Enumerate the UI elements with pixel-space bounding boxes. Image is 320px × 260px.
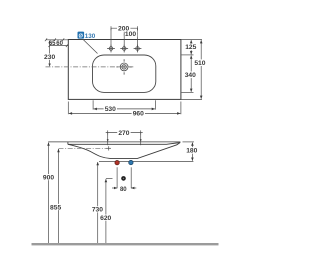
svg-text:900: 900 [43, 174, 54, 181]
svg-text:125: 125 [185, 44, 196, 51]
svg-text:65: 65 [49, 41, 56, 47]
svg-text:180: 180 [186, 148, 197, 155]
svg-text:80: 80 [120, 187, 127, 193]
svg-text:230: 230 [44, 54, 55, 61]
svg-text:130: 130 [85, 33, 96, 40]
svg-text:270: 270 [118, 130, 129, 137]
svg-text:730: 730 [92, 207, 103, 214]
svg-text:340: 340 [185, 72, 196, 79]
svg-text:100: 100 [125, 31, 136, 38]
svg-text:530: 530 [105, 106, 116, 113]
svg-text:960: 960 [133, 111, 144, 118]
svg-text:510: 510 [194, 60, 205, 67]
svg-text:Ø: Ø [79, 33, 84, 39]
svg-text:855: 855 [50, 204, 61, 211]
svg-text:620: 620 [100, 215, 111, 222]
svg-text:60: 60 [56, 41, 63, 47]
